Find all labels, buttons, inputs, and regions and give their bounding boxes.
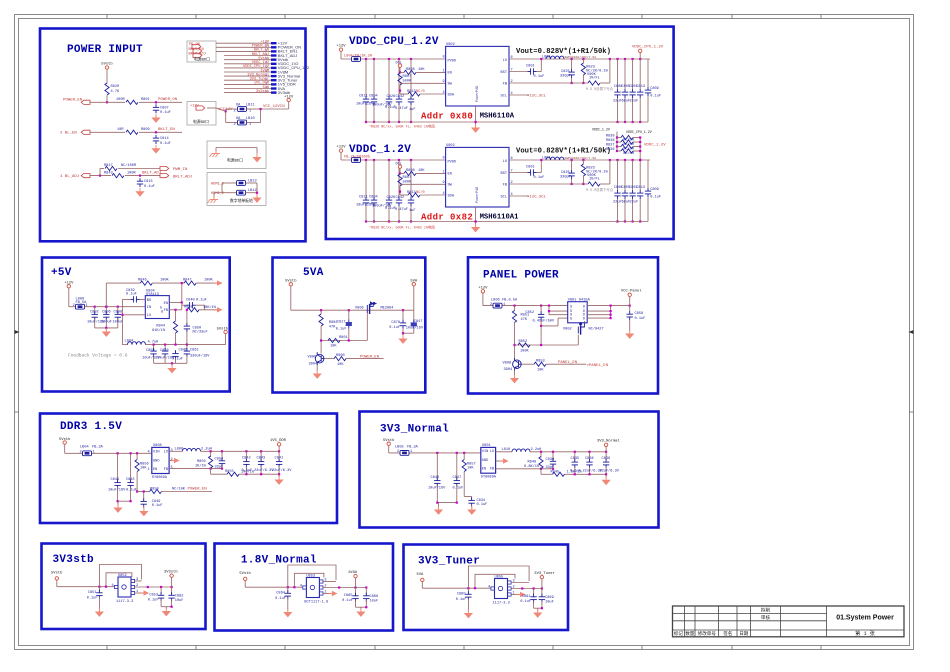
svg-text:0.1uF: 0.1uF — [160, 111, 171, 115]
svg-text:0.1uF: 0.1uF — [570, 470, 581, 474]
svg-text:C845: C845 — [126, 478, 135, 482]
svg-text:VDDC_1.2V: VDDC_1.2V — [592, 128, 610, 132]
svg-text:VCC-Panel: VCC-Panel — [621, 289, 642, 294]
svg-text:10K: 10K — [418, 68, 425, 72]
svg-text:EN: EN — [164, 302, 168, 306]
svg-text:SY8089A: SY8089A — [152, 476, 168, 480]
svg-text:0.1uF: 0.1uF — [342, 599, 353, 603]
svg-text:0.1uF: 0.1uF — [336, 327, 347, 331]
svg-text:1: 1 — [86, 304, 88, 308]
svg-text:3V3_Tuner: 3V3_Tuner — [534, 571, 555, 576]
svg-text:PowerPAD: PowerPAD — [475, 86, 480, 102]
svg-text:0.1uF: 0.1uF — [144, 185, 155, 189]
svg-text:C813: C813 — [636, 85, 645, 89]
svg-text:C878: C878 — [391, 321, 400, 325]
svg-text:FB_0.5A: FB_0.5A — [502, 298, 518, 302]
svg-text:0.1uF: 0.1uF — [152, 504, 163, 508]
svg-text:日期: 日期 — [739, 631, 749, 637]
svg-text:22uF: 22uF — [630, 99, 639, 103]
svg-text:3: 3 — [136, 578, 138, 582]
svg-text:POWER_ON: POWER_ON — [158, 98, 178, 102]
svg-text:5Vstb: 5Vstb — [51, 571, 63, 576]
svg-text:R820: R820 — [111, 85, 120, 89]
svg-text:R855: R855 — [225, 470, 234, 474]
svg-text:0.1uF: 0.1uF — [534, 75, 545, 79]
svg-text:SY8113: SY8113 — [146, 293, 159, 297]
svg-text:3V3stb: 3V3stb — [278, 90, 291, 95]
svg-text:0.1uF: 0.1uF — [456, 598, 467, 602]
svg-text:PWM_IN: PWM_IN — [173, 168, 188, 172]
svg-text:10K/1%: 10K/1% — [203, 305, 217, 310]
svg-text:R800: R800 — [336, 354, 345, 358]
svg-text:91K/1%: 91K/1% — [152, 328, 166, 333]
svg-text:100uF: 100uF — [101, 321, 112, 325]
svg-text:NC/0: NC/0 — [416, 89, 425, 94]
svg-text:«PANEL_EN: «PANEL_EN — [587, 363, 609, 368]
svg-text:0.1uF: 0.1uF — [87, 596, 98, 600]
svg-text:10K: 10K — [330, 345, 337, 349]
svg-text:C856: C856 — [160, 349, 169, 353]
svg-text:NC/0R: NC/0R — [623, 142, 635, 147]
svg-text:9: 9 — [443, 80, 445, 84]
svg-text:1: 1 — [249, 123, 251, 127]
svg-text:«I2C_SCL: «I2C_SCL — [527, 93, 547, 98]
svg-text:4: 4 — [443, 91, 445, 95]
svg-text:33pF: 33pF — [546, 466, 555, 470]
svg-text:U855: U855 — [495, 575, 504, 579]
svg-text:C847: C847 — [414, 320, 423, 324]
svg-text:第 1 张: 第 1 张 — [855, 629, 876, 637]
svg-text:5: 5 — [171, 466, 173, 470]
svg-text:C841: C841 — [275, 457, 284, 461]
svg-text:330pF: 330pF — [560, 75, 571, 79]
svg-text:C815: C815 — [144, 180, 153, 184]
svg-text:VDDC_CPU_1.2V: VDDC_CPU_1.2V — [632, 46, 664, 50]
svg-text:Addr 0x80: Addr 0x80 — [421, 111, 473, 121]
svg-text:100R: 100R — [127, 171, 136, 175]
svg-text:S: S — [570, 306, 572, 310]
svg-text:C826: C826 — [387, 196, 396, 200]
svg-text:C846: C846 — [179, 348, 188, 352]
svg-text:8: 8 — [443, 157, 445, 161]
svg-text:C807: C807 — [160, 106, 169, 110]
svg-text:VDDC_1.2V: VDDC_1.2V — [644, 144, 666, 148]
svg-text:1%/FL: 1%/FL — [589, 76, 600, 81]
svg-text:审核: 审核 — [761, 614, 771, 621]
svg-text:C809: C809 — [650, 87, 659, 91]
svg-text:MSH6110A: MSH6110A — [480, 112, 515, 120]
svg-text:SCL: SCL — [501, 94, 507, 98]
svg-text:2: 2 — [513, 586, 515, 590]
svg-text:U853: U853 — [306, 574, 315, 578]
svg-text:1: 1 — [93, 451, 95, 455]
svg-text:ME2094: ME2094 — [381, 307, 394, 311]
svg-text:R809: R809 — [141, 128, 150, 132]
svg-text:C866: C866 — [370, 595, 379, 599]
svg-text:C825: C825 — [561, 171, 570, 175]
svg-text:V802: V802 — [563, 328, 572, 332]
svg-text:FB_3A: FB_3A — [92, 446, 104, 450]
svg-text:0.1uF: 0.1uF — [520, 600, 531, 604]
svg-text:EN: EN — [448, 72, 452, 76]
svg-text:4 BL_ADJ: 4 BL_ADJ — [60, 175, 79, 179]
svg-text:PowerPAD: PowerPAD — [475, 187, 480, 203]
svg-text:R836: R836 — [606, 148, 615, 152]
svg-text:0.47uF: 0.47uF — [395, 107, 408, 111]
svg-text:LB12: LB12 — [248, 189, 257, 193]
svg-text:4: 4 — [300, 585, 302, 589]
svg-text:R845: R845 — [551, 470, 560, 474]
svg-text:C826: C826 — [387, 95, 396, 99]
svg-text:0.1uF: 0.1uF — [453, 486, 464, 490]
svg-text:+12V: +12V — [190, 105, 199, 109]
svg-text:标记: 标记 — [674, 630, 684, 637]
svg-text:0.1uF: 0.1uF — [534, 176, 545, 180]
svg-text:330uF/16V: 330uF/16V — [190, 354, 210, 359]
svg-text:C814: C814 — [160, 137, 169, 141]
svg-text:2: 2 — [397, 450, 399, 454]
svg-text:C861: C861 — [190, 348, 199, 352]
svg-text:IN: IN — [147, 306, 151, 310]
svg-text:BKLT_EN: BKLT_EN — [189, 48, 204, 52]
svg-text:C840: C840 — [186, 299, 195, 303]
svg-text:L810: L810 — [502, 448, 511, 452]
svg-text:PANEL_EN: PANEL_EN — [558, 361, 578, 365]
svg-text:10uF: 10uF — [370, 600, 379, 604]
svg-text:100K: 100K — [520, 350, 529, 354]
svg-text:0.1uF: 0.1uF — [172, 358, 183, 362]
svg-text:FB_2A/FB1605: FB_2A/FB1605 — [344, 155, 370, 160]
svg-text:R837: R837 — [606, 144, 615, 148]
svg-text:100uF: 100uF — [113, 321, 124, 325]
svg-text:GND: GND — [153, 460, 159, 464]
svg-text:22uF/6.3V: 22uF/6.3V — [600, 469, 620, 474]
svg-text:10uF/16V: 10uF/16V — [406, 325, 424, 330]
svg-text:R843: R843 — [104, 171, 113, 175]
svg-text:0.45uF/50V: 0.45uF/50V — [533, 319, 555, 324]
svg-text:VDDC_1.2V: VDDC_1.2V — [349, 144, 411, 156]
svg-text:BCT1117-1.8: BCT1117-1.8 — [304, 600, 328, 604]
svg-text:SY8089A: SY8089A — [481, 476, 497, 480]
svg-text:2: 2 — [136, 584, 138, 588]
svg-text:VIN: VIN — [482, 450, 488, 454]
svg-text:1: 1 — [148, 468, 150, 472]
svg-text:22uF: 22uF — [630, 200, 639, 204]
svg-text:L801: L801 — [542, 156, 551, 160]
svg-text:LB13: LB13 — [248, 179, 257, 183]
svg-text:1K/1%: 1K/1% — [195, 463, 207, 468]
svg-text:4.7K: 4.7K — [111, 90, 120, 94]
svg-text:C865: C865 — [344, 594, 353, 598]
svg-text:BST: BST — [501, 172, 508, 176]
svg-text:R847: R847 — [104, 164, 113, 168]
svg-text:C804: C804 — [369, 95, 378, 99]
svg-text:MSH6110A1: MSH6110A1 — [480, 213, 520, 221]
svg-text:1: 1 — [443, 170, 445, 174]
svg-text:R813: R813 — [407, 191, 416, 195]
svg-text:NC/33uF: NC/33uF — [193, 329, 208, 334]
svg-text:330pF: 330pF — [560, 176, 571, 180]
svg-text:100K: 100K — [160, 279, 169, 283]
svg-text:FB_3A: FB_3A — [407, 445, 419, 449]
svg-text:0.1uF: 0.1uF — [126, 488, 137, 492]
svg-text:33pF: 33pF — [215, 465, 224, 469]
svg-text:C838: C838 — [602, 457, 611, 461]
svg-text:C811: C811 — [359, 95, 368, 99]
svg-text:SDA: SDA — [448, 93, 455, 97]
svg-text:3: 3 — [324, 579, 326, 583]
svg-text:G: G — [570, 318, 572, 322]
svg-text:R801: R801 — [339, 336, 348, 340]
svg-text:C854: C854 — [215, 458, 224, 462]
svg-text:L806: L806 — [491, 298, 500, 302]
svg-text:C830: C830 — [546, 458, 555, 462]
svg-text:C825: C825 — [561, 70, 570, 74]
svg-text:47K: 47K — [521, 318, 528, 322]
svg-text:0.1uF: 0.1uF — [196, 299, 207, 303]
svg-text:C804: C804 — [369, 196, 378, 200]
svg-text:0.1uF: 0.1uF — [389, 326, 400, 330]
svg-text:C817: C817 — [337, 320, 346, 324]
svg-text:1V5_DDR: 1V5_DDR — [270, 439, 287, 443]
svg-text:V808: V808 — [503, 361, 512, 365]
svg-text:C842: C842 — [396, 95, 405, 99]
svg-text:U802: U802 — [446, 144, 455, 148]
svg-text:8: 8 — [443, 56, 445, 60]
svg-text:L801: L801 — [542, 55, 551, 59]
svg-text:C860: C860 — [457, 592, 466, 596]
svg-text:1: 1 — [249, 110, 251, 114]
svg-text:C844: C844 — [111, 478, 120, 482]
svg-text:L804/FB/1R_2A: L804/FB/1R_2A — [344, 54, 373, 59]
svg-text:R859: R859 — [150, 487, 159, 491]
svg-text:0.47uF: 0.47uF — [395, 208, 408, 212]
svg-text:EN: EN — [153, 468, 157, 472]
svg-text:9435A: 9435A — [579, 298, 591, 302]
svg-text:R807: R807 — [403, 176, 412, 180]
svg-text:R852: R852 — [519, 340, 528, 344]
svg-text:R853: R853 — [536, 360, 545, 364]
svg-text:10K: 10K — [140, 466, 147, 470]
svg-text:NC/0R: NC/0R — [623, 151, 635, 156]
svg-text:0.1uF: 0.1uF — [650, 196, 661, 200]
svg-text:10uF: 10uF — [545, 601, 554, 605]
svg-text:10K: 10K — [418, 169, 425, 173]
svg-text:VDDC_CPU_1.2V: VDDC_CPU_1.2V — [626, 130, 652, 134]
svg-text:2: 2 — [80, 451, 82, 455]
svg-text:100K: 100K — [204, 279, 213, 283]
svg-text:C842: C842 — [242, 457, 251, 461]
svg-text:C853: C853 — [149, 593, 158, 597]
svg-text:C843: C843 — [257, 457, 266, 461]
svg-text:R808: R808 — [406, 169, 415, 173]
svg-text:C869: C869 — [545, 596, 554, 600]
svg-text:LB04: LB04 — [80, 446, 89, 450]
svg-text:3: 3 — [513, 580, 515, 584]
svg-text:BKLT_ADJ: BKLT_ADJ — [189, 52, 206, 56]
svg-text:Addr 0x82: Addr 0x82 — [421, 212, 473, 222]
svg-text:10K: 10K — [467, 466, 474, 470]
svg-text:1: 1 — [136, 590, 138, 594]
svg-text:LB11: LB11 — [246, 104, 255, 108]
svg-text:R846: R846 — [138, 279, 147, 283]
svg-text:10uF/16V: 10uF/16V — [108, 487, 126, 492]
svg-text:R801: R801 — [141, 98, 150, 102]
svg-text:PE_ON: PE_ON — [189, 43, 200, 47]
svg-text:U802: U802 — [446, 43, 455, 47]
svg-text:4: 4 — [443, 192, 445, 196]
svg-text:+5V: +5V — [51, 267, 72, 279]
svg-text:NC/0R: NC/0R — [623, 137, 635, 142]
svg-text:C836: C836 — [585, 457, 594, 461]
svg-text:VDDC_CPU_1.2V: VDDC_CPU_1.2V — [349, 36, 439, 48]
svg-text:C864: C864 — [276, 591, 285, 595]
svg-text:GND: GND — [482, 459, 488, 463]
svg-text:1: 1 — [443, 69, 445, 73]
svg-text:R808: R808 — [406, 68, 415, 72]
svg-text:SWPA8040/2R2/7.5A: SWPA8040/2R2/7.5A — [565, 55, 597, 59]
svg-text:U808: U808 — [153, 444, 162, 448]
svg-text:C801: C801 — [526, 65, 535, 69]
svg-text:5VA: 5VA — [417, 573, 425, 577]
svg-text:10uF/16V: 10uF/16V — [428, 485, 446, 490]
svg-text:数量: 数量 — [685, 630, 695, 637]
svg-text:BS: BS — [147, 299, 151, 303]
svg-text:SDA: SDA — [448, 194, 455, 198]
svg-text:SCL: SCL — [501, 195, 507, 199]
svg-text:NC/0: NC/0 — [416, 190, 425, 195]
svg-text:BKLT_ADJ: BKLT_ADJ — [142, 171, 161, 175]
svg-text:U801: U801 — [482, 444, 491, 448]
svg-text:签名: 签名 — [723, 630, 732, 637]
svg-text:POWER INPUT: POWER INPUT — [67, 44, 143, 56]
svg-text:PVDD: PVDD — [448, 59, 457, 63]
svg-text:01.System Power: 01.System Power — [836, 615, 894, 622]
svg-text:修改单号: 修改单号 — [698, 630, 717, 637]
svg-text:9: 9 — [443, 181, 445, 185]
svg-text:2: 2 — [490, 303, 492, 307]
svg-text:3V3_Normal: 3V3_Normal — [380, 424, 449, 436]
svg-text:LB05: LB05 — [395, 445, 404, 449]
svg-text:D: D — [583, 306, 585, 310]
svg-text:4: 4 — [488, 586, 490, 590]
svg-text:C811: C811 — [359, 196, 368, 200]
svg-text:2 BL_EN: 2 BL_EN — [60, 132, 77, 136]
svg-text:1uF: 1uF — [409, 108, 415, 112]
svg-text:R838: R838 — [606, 139, 615, 143]
svg-text:NC/0R: NC/0R — [623, 146, 635, 151]
svg-text:C801: C801 — [526, 166, 535, 170]
svg-text:C847: C847 — [453, 476, 462, 480]
svg-text:5VA: 5VA — [303, 267, 324, 279]
svg-text:BKLT_ADJ: BKLT_ADJ — [173, 176, 192, 180]
svg-text:2: 2 — [234, 123, 236, 127]
svg-text:R813: R813 — [407, 90, 416, 94]
svg-text:V806: V806 — [355, 307, 364, 311]
svg-text:C851: C851 — [88, 591, 97, 595]
svg-text:PANEL POWER: PANEL POWER — [483, 270, 559, 282]
svg-text:NC/9427: NC/9427 — [589, 327, 604, 332]
svg-text:0.1uF: 0.1uF — [650, 95, 661, 99]
svg-text:0.1uF: 0.1uF — [160, 142, 171, 146]
svg-text:R844: R844 — [156, 324, 165, 328]
svg-text:V801: V801 — [568, 298, 577, 302]
svg-text:LB10: LB10 — [246, 117, 255, 121]
svg-text:DDR3 1.5V: DDR3 1.5V — [60, 421, 122, 433]
svg-text:2: 2 — [234, 110, 236, 114]
svg-text:+12V: +12V — [284, 96, 294, 100]
svg-text:1117-3.3: 1117-3.3 — [116, 600, 133, 604]
svg-text:5Vstb: 5Vstb — [239, 571, 251, 576]
svg-text:0.1uF: 0.1uF — [275, 597, 286, 601]
svg-text:C813: C813 — [636, 186, 645, 190]
svg-text:Feedback Voltage = 0.6: Feedback Voltage = 0.6 — [68, 352, 128, 358]
svg-text:1%/FL: 1%/FL — [589, 177, 600, 182]
svg-text:1: 1 — [503, 303, 505, 307]
svg-text:5Vstb: 5Vstb — [217, 326, 229, 331]
svg-text:R848: R848 — [184, 306, 193, 310]
svg-text:0.1uF: 0.1uF — [242, 469, 253, 473]
svg-text:4: 4 — [112, 584, 114, 588]
svg-text:SWPA8040/2R2/7.5A: SWPA8040/2R2/7.5A — [565, 156, 597, 160]
svg-text:PVDD: PVDD — [448, 160, 457, 164]
svg-text:L808: L808 — [175, 448, 184, 452]
svg-text:100R: 100R — [116, 98, 125, 102]
svg-text:C882: C882 — [175, 594, 184, 598]
svg-text:R839: R839 — [606, 135, 615, 139]
svg-text:3V3stb: 3V3stb — [53, 554, 95, 566]
svg-text:0.1uF: 0.1uF — [148, 599, 159, 603]
svg-text:BKLT_EN: BKLT_EN — [158, 128, 175, 132]
svg-text:C861: C861 — [522, 595, 531, 599]
svg-text:EN: EN — [448, 173, 452, 177]
svg-text:Vout=0.828V*(1+R1/50k): Vout=0.828V*(1+R1/50k) — [516, 48, 611, 56]
svg-text:22uF: 22uF — [613, 99, 622, 103]
svg-text:22uF: 22uF — [613, 200, 622, 204]
svg-text:G: G — [161, 311, 163, 315]
svg-text:POWER_EN: POWER_EN — [188, 488, 208, 492]
svg-text:4: 4 — [148, 450, 150, 454]
svg-text:BST: BST — [501, 71, 508, 75]
svg-text:10R: 10R — [117, 128, 124, 132]
svg-text:C842: C842 — [396, 196, 405, 200]
svg-text:C840: C840 — [431, 476, 440, 480]
svg-text:拟制: 拟制 — [761, 607, 771, 614]
svg-text:VIN: VIN — [153, 451, 159, 455]
svg-text:1uF: 1uF — [409, 209, 415, 213]
svg-text:0.1uF: 0.1uF — [477, 503, 488, 507]
svg-text:U852: U852 — [118, 574, 127, 578]
svg-text:POWER_EN: POWER_EN — [63, 99, 83, 103]
svg-text:C858: C858 — [635, 312, 644, 316]
svg-text:R847: R847 — [183, 279, 192, 283]
svg-text:«I2C_SCL: «I2C_SCL — [527, 194, 547, 199]
svg-text:1: 1 — [324, 591, 326, 595]
svg-text:1117-3.3: 1117-3.3 — [493, 601, 510, 605]
svg-text:22uF/6.3V: 22uF/6.3V — [272, 468, 292, 473]
svg-text:V809: V809 — [308, 356, 317, 360]
svg-text:Vout=0.828V*(1+R1/50k): Vout=0.828V*(1+R1/50k) — [516, 148, 611, 156]
svg-text:10K: 10K — [337, 363, 344, 367]
svg-text:1: 1 — [513, 592, 515, 596]
svg-text:NC/10K: NC/10K — [172, 486, 186, 491]
svg-text:POWER_EN: POWER_EN — [360, 355, 380, 359]
svg-text:10uF: 10uF — [175, 599, 184, 603]
svg-text:3904: 3904 — [309, 362, 318, 366]
svg-text:C809: C809 — [650, 188, 659, 192]
svg-text:C835: C835 — [571, 457, 580, 461]
svg-text:2: 2 — [324, 585, 326, 589]
